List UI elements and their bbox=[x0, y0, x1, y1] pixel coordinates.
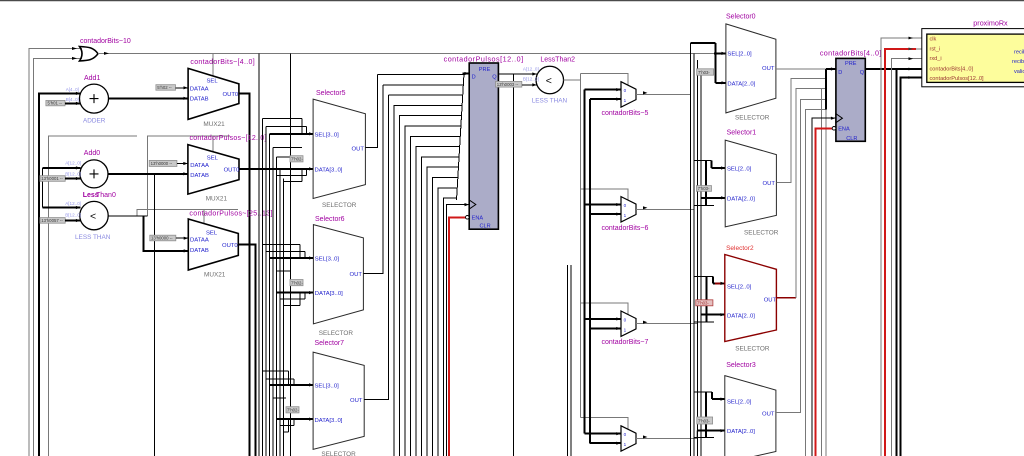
adder Add1 bbox=[66, 75, 109, 125]
Selector2 SELECTOR (highlighted red) bbox=[725, 245, 777, 352]
svg-text:LESS THAN: LESS THAN bbox=[532, 98, 568, 105]
arrowheads at proximoRx ports bbox=[909, 37, 914, 40]
svg-text:SEL[3..0]: SEL[3..0] bbox=[315, 384, 340, 390]
wire: bridge b1 bbox=[806, 110, 826, 456]
svg-text:MUX21: MUX21 bbox=[203, 121, 225, 128]
adder Add0 bbox=[65, 150, 108, 188]
svg-text:Than0: Than0 bbox=[96, 192, 116, 199]
svg-text:7'h03-: 7'h03- bbox=[697, 301, 709, 306]
constant 7'h03 for Selector2 (highlighted) bbox=[696, 300, 713, 306]
wire: LessThan0 output bbox=[108, 215, 148, 217]
svg-text:LessThan2: LessThan2 bbox=[540, 57, 575, 64]
svg-text:valido: valido bbox=[1014, 69, 1024, 75]
register contadorPulsos[12..0] bbox=[444, 55, 523, 230]
svg-text:Q: Q bbox=[860, 70, 865, 76]
svg-text:DATA[3..0]: DATA[3..0] bbox=[315, 291, 343, 297]
svg-text:B[4..0]: B[4..0] bbox=[66, 97, 79, 102]
svg-text:contadorPulsos[12..0]: contadorPulsos[12..0] bbox=[444, 55, 523, 64]
wire: contadorBits~10 output (long run to Selector0 SEL) bbox=[98, 52, 726, 54]
svg-text:DATAB: DATAB bbox=[190, 173, 209, 179]
wire: mux1 output down into bundle bbox=[239, 94, 250, 456]
svg-text:Selector7: Selector7 bbox=[315, 340, 345, 347]
wire: Selector1 output bridge bbox=[776, 79, 825, 183]
Selector7 input taps bbox=[263, 371, 314, 432]
wire bundle E verticals bbox=[690, 43, 692, 456]
svg-text:Selector2: Selector2 bbox=[726, 245, 754, 252]
svg-text:0: 0 bbox=[624, 432, 627, 437]
wire: contadorBits bus to Add1 A bbox=[39, 93, 81, 456]
svg-text:OUT: OUT bbox=[762, 412, 775, 418]
svg-text:OUT: OUT bbox=[764, 297, 777, 303]
wire bundle B verticals bbox=[258, 53, 260, 456]
wire: LessThan2 output and SEL distribution bbox=[564, 80, 581, 418]
svg-text:OUT0: OUT0 bbox=[224, 168, 240, 174]
svg-text:contadorPulsos~[25..13]: contadorPulsos~[25..13] bbox=[189, 211, 272, 218]
svg-text:Selector0: Selector0 bbox=[726, 14, 756, 21]
input pin arrowheads bbox=[76, 52, 835, 445]
svg-text:0: 0 bbox=[624, 88, 627, 93]
svg-text:MUX21: MUX21 bbox=[204, 272, 226, 279]
svg-text:SEL[3..0]: SEL[3..0] bbox=[315, 257, 340, 263]
wire: contadorBits~6 output bbox=[636, 208, 694, 210]
register contadorBits[4..0] bbox=[820, 49, 881, 143]
wire: Selector5 output bbox=[365, 75, 377, 148]
svg-text:DATAB: DATAB bbox=[190, 97, 209, 103]
svg-text:recibiendo: recibiendo bbox=[1012, 59, 1024, 65]
svg-text:OUT0: OUT0 bbox=[222, 243, 238, 249]
svg-text:SEL: SEL bbox=[207, 79, 219, 85]
mux contadorBits~5 bbox=[602, 82, 649, 117]
svg-text:DATAA: DATAA bbox=[190, 163, 209, 169]
svg-text:SELECTOR: SELECTOR bbox=[735, 345, 770, 352]
wire: rxd net to proximoRx bbox=[892, 59, 927, 456]
svg-text:DATA[2..0]: DATA[2..0] bbox=[727, 429, 755, 435]
svg-text:Add0: Add0 bbox=[84, 150, 100, 157]
svg-text:DATA[3..0]: DATA[3..0] bbox=[315, 418, 343, 424]
svg-text:SEL: SEL bbox=[206, 230, 218, 236]
svg-text:1: 1 bbox=[624, 327, 627, 332]
wire: Add0 A input bbox=[43, 167, 81, 169]
comparator LessThan0 bbox=[65, 192, 116, 241]
constant 7'h02 for Selector7 bbox=[286, 407, 299, 413]
wire: mux3 output down bbox=[238, 244, 255, 456]
wire: contadorBits~6 data inputs bbox=[585, 204, 621, 206]
wire: LessThan0 out to mux3 DATAB bbox=[144, 216, 189, 251]
wire: contadorPulsos Q down branch bbox=[513, 74, 515, 456]
wire fan into contadorPulsos D (13 bits) bbox=[377, 74, 469, 456]
wire: red enable net to contadorBits ENA bbox=[816, 128, 833, 456]
svg-text:A[12..0]: A[12..0] bbox=[65, 161, 81, 166]
module proximoRx bbox=[922, 19, 1024, 87]
wire: clk into contadorPulsos bbox=[446, 205, 469, 456]
svg-text:contadorPulsos~[12..0]: contadorPulsos~[12..0] bbox=[190, 135, 267, 142]
svg-text:Selector6: Selector6 bbox=[315, 216, 345, 223]
svg-text:OUT: OUT bbox=[350, 272, 363, 278]
mux contadorBits~7 bbox=[602, 311, 649, 346]
constant 13'h0000 for mux2 DATAA bbox=[149, 160, 188, 166]
wire: contadorBits~5 data inputs bbox=[585, 89, 621, 91]
wire: contadorBits~5 output bbox=[636, 93, 691, 95]
wire: Selector2 output bridge bbox=[776, 297, 796, 299]
wire: contadorBits D merge trunk bbox=[825, 69, 827, 110]
wire: branch to Add0 A and LessThan0 A bbox=[42, 168, 44, 208]
wire: data bus verticals for small muxes bbox=[584, 90, 586, 434]
svg-text:A[12..0]: A[12..0] bbox=[65, 201, 81, 206]
svg-text:LESS THAN: LESS THAN bbox=[75, 234, 111, 241]
svg-text:<: < bbox=[546, 75, 552, 87]
svg-text:DATA[2..0]: DATA[2..0] bbox=[727, 197, 755, 203]
comparator LessThan2 bbox=[523, 57, 575, 105]
top border line bbox=[0, 0, 1024, 2]
wire: contadorPulsos Q to LessThan2 A bbox=[498, 73, 537, 75]
Selector7 SELECTOR bbox=[313, 340, 364, 456]
svg-text:clk: clk bbox=[930, 37, 937, 43]
svg-text:D: D bbox=[838, 70, 842, 76]
constant 7'h02 for Selector5 bbox=[290, 156, 303, 162]
Selector3 input taps bbox=[694, 392, 725, 438]
constant 7'h03 for Selector3 bbox=[697, 417, 713, 424]
svg-text:<: < bbox=[90, 211, 96, 223]
svg-text:Selector1: Selector1 bbox=[727, 130, 757, 137]
wire: mux2 output to Selector5 DATA bbox=[239, 168, 313, 170]
svg-text:Selector3: Selector3 bbox=[726, 362, 756, 369]
svg-text:contadorPulsos[12..0]: contadorPulsos[12..0] bbox=[930, 76, 985, 82]
wire: Add1 output to mux1 DATAB bbox=[109, 97, 189, 99]
wire: contadorPulsos bus to proximoRx bbox=[901, 78, 927, 456]
svg-text:ENA: ENA bbox=[838, 127, 850, 133]
Selector2 input taps bbox=[694, 276, 725, 322]
mux U1 contadorBits~[4..0] MUX21 bbox=[188, 59, 255, 128]
svg-text:1: 1 bbox=[624, 442, 627, 447]
svg-text:SEL[2..0]: SEL[2..0] bbox=[727, 400, 752, 406]
mux U3 contadorPulsos~[25..13] MUX21 bbox=[188, 211, 272, 279]
svg-text:1: 1 bbox=[624, 213, 627, 218]
Selector3 SELECTOR bbox=[725, 362, 776, 456]
Selector5 SELECTOR bbox=[313, 90, 365, 209]
svg-text:ADDER: ADDER bbox=[83, 118, 106, 125]
wire: left vertical feeding SEL line bbox=[49, 136, 138, 456]
svg-text:contadorBits[4..0]: contadorBits[4..0] bbox=[930, 66, 974, 72]
wire: left bundle vertical 2 (OR input B) bbox=[34, 58, 82, 456]
svg-text:MUX21: MUX21 bbox=[206, 196, 228, 203]
Selector0 input taps bbox=[691, 43, 726, 83]
wire: contadorBits Q to proximoRx bbox=[865, 68, 927, 70]
svg-text:7'h03-: 7'h03- bbox=[698, 418, 710, 423]
svg-text:contadorBits~5: contadorBits~5 bbox=[602, 110, 649, 117]
wire: mux2 SEL line bbox=[148, 136, 230, 216]
svg-text:SELECTOR: SELECTOR bbox=[744, 230, 779, 237]
svg-text:Add1: Add1 bbox=[84, 75, 100, 82]
wire: Add0 output to mux2 DATAB bbox=[108, 173, 188, 175]
svg-text:B[12..0]: B[12..0] bbox=[65, 213, 81, 218]
svg-text:DATAA: DATAA bbox=[190, 238, 209, 244]
svg-text:5'h02 --: 5'h02 -- bbox=[157, 85, 172, 90]
svg-text:7'h02-: 7'h02- bbox=[287, 408, 299, 413]
svg-text:DATAB: DATAB bbox=[190, 248, 209, 254]
svg-text:OUT0: OUT0 bbox=[223, 92, 239, 98]
svg-text:1: 1 bbox=[624, 98, 627, 103]
svg-text:A[4..0]: A[4..0] bbox=[66, 87, 79, 92]
svg-text:SEL[2..0]: SEL[2..0] bbox=[727, 167, 752, 173]
wire: clk into contadorBits bbox=[812, 118, 836, 456]
wire: contadorBits~7 output bbox=[636, 323, 698, 325]
wire: mux3 SEL line bbox=[137, 210, 238, 216]
wire: misc verticals bbox=[567, 265, 569, 456]
wire: Selector0 output to contadorBits D bbox=[776, 68, 826, 70]
svg-text:OUT: OUT bbox=[763, 181, 776, 187]
svg-text:contadorBits[4..0]: contadorBits[4..0] bbox=[820, 49, 881, 58]
wire: left bundle vertical 1 (OR input A) bbox=[29, 49, 82, 456]
svg-text:PRE: PRE bbox=[845, 61, 857, 67]
svg-text:B[12..0]: B[12..0] bbox=[523, 77, 539, 82]
svg-text:OUT: OUT bbox=[350, 398, 363, 404]
wire: SEL drop into mux1 bbox=[212, 53, 214, 76]
svg-text:contadorBits~7: contadorBits~7 bbox=[602, 339, 649, 346]
Selector1 SELECTOR bbox=[725, 130, 779, 237]
svg-text:ENA: ENA bbox=[472, 216, 484, 222]
wire: contadorBits~7 data inputs bbox=[585, 318, 621, 320]
svg-text:CLR: CLR bbox=[846, 136, 857, 142]
constant 13'h0000 for mux3 DATAA bbox=[150, 235, 189, 241]
mux U2 contadorPulsos~[12..0] MUX21 bbox=[188, 135, 267, 203]
mux contadorBits~6 bbox=[602, 197, 649, 232]
svg-text:rst_i: rst_i bbox=[930, 46, 941, 52]
svg-text:SELECTOR: SELECTOR bbox=[322, 202, 357, 209]
svg-text:DATA[3..0]: DATA[3..0] bbox=[315, 167, 343, 173]
wire: clk net to proximoRx bbox=[881, 38, 927, 456]
wire: red enable net to contadorPulsos ENA bbox=[449, 217, 466, 456]
Selector5 input taps bbox=[263, 119, 314, 182]
svg-text:Q: Q bbox=[492, 75, 497, 81]
svg-text:contadorBits~6: contadorBits~6 bbox=[602, 225, 649, 232]
Selector6 input taps bbox=[263, 245, 314, 306]
Selector6 SELECTOR bbox=[313, 216, 363, 337]
constant 5'h01 for Add1 B bbox=[46, 100, 81, 105]
svg-text:SEL: SEL bbox=[207, 156, 219, 162]
svg-text:DATA[2..0]: DATA[2..0] bbox=[727, 313, 755, 319]
svg-text:5'h01 --: 5'h01 -- bbox=[48, 101, 63, 106]
svg-text:SELECTOR: SELECTOR bbox=[735, 114, 770, 121]
svg-text:proximoRx: proximoRx bbox=[973, 19, 1008, 28]
svg-text:SEL[2..0]: SEL[2..0] bbox=[727, 284, 752, 290]
wire: contadorBits~8 data inputs bbox=[585, 433, 621, 435]
svg-text:13'h0001 --: 13'h0001 -- bbox=[41, 176, 63, 181]
svg-text:recibido: recibido bbox=[1014, 49, 1024, 55]
wire: red rst net to proximoRx bbox=[885, 49, 916, 456]
svg-text:13'h0000 --: 13'h0000 -- bbox=[151, 161, 173, 166]
constant 13'h0003 for LessThan2 B bbox=[496, 81, 538, 87]
mux contadorBits~8 bbox=[621, 426, 636, 451]
svg-text:13'h0057 --: 13'h0057 -- bbox=[41, 218, 63, 223]
svg-text:Selector5: Selector5 bbox=[316, 90, 346, 97]
svg-text:0: 0 bbox=[624, 203, 627, 208]
svg-text:13'h0003 --: 13'h0003 -- bbox=[497, 82, 519, 87]
wire: LessThan0 A input bbox=[43, 207, 81, 209]
wire: Add0 output down branch bbox=[154, 174, 156, 456]
wire: contadorBits~8 output bbox=[636, 431, 697, 439]
svg-text:OUT: OUT bbox=[762, 66, 775, 72]
constant 13'h0057 for LessThan0 B bbox=[40, 218, 81, 224]
svg-text:OUT: OUT bbox=[352, 146, 365, 152]
svg-text:SEL[2..0]: SEL[2..0] bbox=[727, 52, 752, 58]
svg-text:7'h03-: 7'h03- bbox=[698, 70, 710, 75]
OR gate contadorBits~10 bbox=[72, 38, 131, 61]
Selector1 input taps bbox=[694, 160, 725, 205]
svg-text:SELECTOR: SELECTOR bbox=[319, 330, 354, 337]
svg-text:rxd_i: rxd_i bbox=[930, 56, 942, 62]
wire: Selector6 output bbox=[363, 85, 382, 274]
svg-text:CLR: CLR bbox=[480, 224, 491, 230]
wire: Selector7 output bbox=[364, 95, 388, 399]
svg-text:contadorBits~10: contadorBits~10 bbox=[80, 38, 131, 45]
svg-text:A[12..0]: A[12..0] bbox=[523, 67, 539, 72]
constant 7'h02 for Selector6 bbox=[290, 280, 303, 286]
wire: Selector3 output bridge bbox=[776, 99, 826, 412]
wire: contadorBits bus down branch bbox=[896, 69, 898, 456]
svg-text:SELECTOR: SELECTOR bbox=[321, 451, 356, 456]
constant 5'h02 for mux1 DATAA bbox=[156, 85, 188, 91]
svg-text:7'h02-: 7'h02- bbox=[291, 280, 303, 285]
svg-text:contadorBits~[4..0]: contadorBits~[4..0] bbox=[190, 59, 254, 66]
svg-text:SEL[3..0]: SEL[3..0] bbox=[315, 132, 340, 138]
svg-text:0: 0 bbox=[624, 318, 627, 323]
Selector0 SELECTOR bbox=[726, 14, 776, 122]
svg-text:PRE: PRE bbox=[479, 67, 491, 73]
constant 13'h0001 for Add0 B bbox=[40, 176, 81, 182]
svg-text:B[12..0]: B[12..0] bbox=[65, 172, 81, 177]
svg-text:13'h0000 --: 13'h0000 -- bbox=[151, 236, 173, 241]
svg-text:7'h02-: 7'h02- bbox=[291, 157, 303, 162]
constant 7'h03 for Selector1 bbox=[696, 186, 711, 192]
svg-text:DATAA: DATAA bbox=[190, 86, 209, 92]
svg-text:D: D bbox=[472, 75, 476, 81]
constant 7'h03 for Selector0 bbox=[697, 69, 714, 75]
svg-text:DATA[2..0]: DATA[2..0] bbox=[727, 81, 755, 87]
svg-text:7'h03-: 7'h03- bbox=[698, 186, 710, 191]
